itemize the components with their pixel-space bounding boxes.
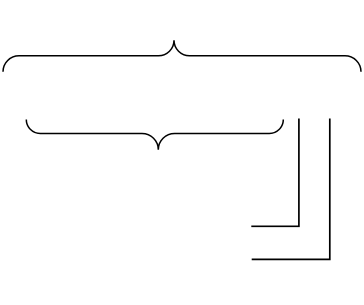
lower curly brace B2 (tip pointing down at x=158) [26, 120, 283, 150]
outer L-shaped line (tall vertical + horizontal) [252, 119, 330, 260]
top curly brace B1 (full width, tip pointing up at x=174) [3, 40, 361, 72]
inner L-shaped line (short vertical + horizontal) [251, 119, 299, 227]
